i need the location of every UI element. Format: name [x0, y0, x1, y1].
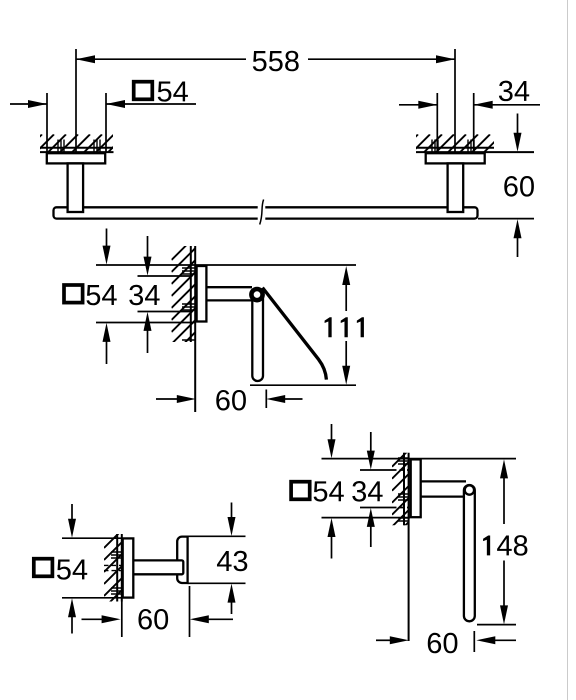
- d4 wall line 1: [403, 453, 405, 526]
- label square 54 d4: [291, 482, 310, 500]
- label square 54 top: [134, 82, 153, 100]
- label 558: [253, 51, 299, 72]
- label 148: [483, 535, 527, 556]
- ext line 34 left: [436, 93, 438, 152]
- 54 top line (also 148 ref): [322, 458, 517, 460]
- dim 43: [188, 503, 246, 615]
- middle plate: [197, 266, 207, 322]
- bottom ref line (roller bottom): [250, 384, 356, 386]
- label 43: [217, 551, 247, 572]
- dim 34 arrow right-pointing: [418, 101, 437, 109]
- dim 54 arrow left-pointing: [106, 100, 125, 108]
- 54 down arrow: [331, 424, 333, 440]
- dim 60 hook: [82, 586, 234, 637]
- d4 wall line 2 + 60 ext: [408, 453, 410, 641]
- label 34 middle: [129, 285, 159, 306]
- 34 top line: [360, 469, 392, 471]
- right ext tick: [473, 631, 475, 652]
- d4 bottom ref line: [477, 624, 516, 626]
- 34 top line: [138, 275, 189, 277]
- label 54 d4: [314, 481, 344, 501]
- d4 arm top edge: [421, 480, 466, 482]
- left wall line 2: [40, 151, 114, 153]
- hook wall hatch: [104, 530, 123, 621]
- label 60 middle: [216, 390, 246, 411]
- label 54 top: [158, 81, 188, 101]
- arm bottom edge: [207, 299, 253, 301]
- 34 down arrow: [147, 236, 149, 258]
- dim 558 arrow left: [76, 55, 95, 63]
- label 60 right: [504, 176, 534, 197]
- d4 pivot circle: [465, 485, 474, 494]
- towel bar: [54, 207, 478, 218]
- dim 60 down arrow: [514, 114, 522, 258]
- hook bar (front plate, drawn first): [177, 537, 187, 583]
- label square 54 hook: [34, 559, 53, 577]
- middle wall hatch: [172, 236, 196, 368]
- label square 54 middle: [64, 285, 83, 303]
- dim 34 line right: [399, 104, 540, 106]
- 54 top line (also 111 ref): [96, 264, 356, 266]
- bar break gap: [258, 206, 266, 221]
- right plate: [426, 153, 485, 163]
- left plate: [47, 153, 105, 163]
- ext right: [189, 586, 191, 637]
- label 54 hook: [57, 559, 87, 579]
- page rule line right: [567, 0, 569, 700]
- 54 bottom line: [96, 322, 196, 324]
- dim 54 arrow right-pointing: [28, 100, 47, 108]
- right wall line 1: [416, 147, 494, 149]
- dim 111: [342, 266, 350, 385]
- dim 558 arrow right: [436, 55, 455, 63]
- d4 wall hatch: [392, 449, 409, 538]
- right post: [448, 163, 464, 212]
- label 60 d4: [428, 633, 458, 654]
- center dashes: [104, 565, 122, 570]
- hook plate: [123, 538, 134, 597]
- right ext tick: [265, 390, 267, 409]
- right bracket wall hatch: [399, 134, 502, 153]
- d4 arm bottom edge: [421, 495, 470, 497]
- left post: [68, 163, 84, 212]
- middle wall line 1: [190, 246, 192, 342]
- 54 down arrow: [106, 229, 108, 248]
- right wall line 2 (extends to 60-dim): [416, 151, 534, 153]
- label 34 top right: [499, 81, 529, 102]
- 54 up arrow: [71, 617, 73, 634]
- ext line 34 right: [473, 93, 475, 152]
- dim 34 arrow left-pointing: [474, 101, 493, 109]
- 34 bottom line: [138, 311, 189, 313]
- 54 bottom line: [62, 597, 122, 599]
- bar bottom ext to 60-dim: [478, 218, 534, 220]
- ext line plate right: [105, 93, 107, 152]
- dim 60 up arrow: [517, 237, 519, 257]
- dim 60 middle: [156, 390, 303, 409]
- 54 down arrow: [71, 504, 73, 520]
- label 60 hook: [138, 609, 168, 630]
- ext line plate left: [46, 93, 48, 152]
- d4 roller: [464, 485, 475, 621]
- bar break squiggle: [260, 200, 264, 225]
- 34 bottom line: [360, 507, 392, 509]
- ext line right bracket center: [454, 49, 456, 152]
- label 54 middle: [86, 285, 116, 305]
- cover flap: [263, 288, 327, 380]
- 54 bottom line: [322, 517, 411, 519]
- 34 up arrow: [147, 330, 149, 353]
- label 34 d4: [352, 481, 382, 502]
- label 111: [325, 317, 364, 337]
- dim 148: [500, 459, 508, 624]
- ext left: [121, 602, 123, 638]
- 34 down arrow: [370, 432, 372, 452]
- dim 60 d4: [376, 631, 516, 652]
- hook stem: [132, 560, 183, 574]
- dim 558 line: [76, 58, 455, 60]
- 54 up arrow: [331, 537, 333, 559]
- hook wall line 1: [116, 534, 118, 602]
- dim 54 line left: [10, 103, 196, 105]
- pivot ring: [251, 289, 262, 300]
- d4 plate: [411, 459, 421, 517]
- left wall line 1: [40, 147, 113, 149]
- roller (paper spindle): [252, 289, 263, 381]
- 34 up arrow: [370, 526, 372, 547]
- hook wall line 2: [121, 534, 123, 602]
- 54 top line: [62, 537, 122, 539]
- arm top edge: [207, 286, 253, 288]
- middle wall line 2 + 60 ext: [194, 246, 196, 412]
- ext line left bracket center: [75, 49, 77, 152]
- left bracket wall hatch: [23, 134, 126, 153]
- 54 up arrow: [106, 341, 108, 364]
